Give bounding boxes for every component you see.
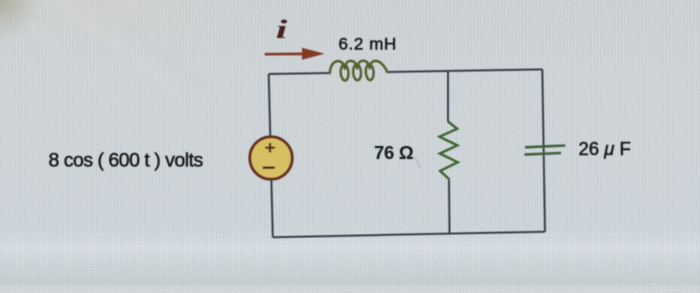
wire middle branch upper xyxy=(447,71,449,121)
voltage source VS circle xyxy=(250,137,292,179)
svg-text:26 μ F: 26 μ F xyxy=(579,138,631,159)
wire left edge xyxy=(269,74,273,237)
capacitor C1 plate top xyxy=(525,146,565,148)
wire top edge left segment xyxy=(269,73,330,74)
wire bottom edge xyxy=(273,232,545,238)
inductor L1 6.2 mH coil xyxy=(330,61,388,81)
current arrow shaft xyxy=(265,53,304,56)
capacitor C1 plate bottom xyxy=(524,153,561,155)
svg-text:i: i xyxy=(276,15,288,44)
voltage source plus sign xyxy=(265,143,275,153)
wire middle branch lower xyxy=(448,180,451,234)
voltage source minus sign xyxy=(263,166,275,169)
svg-text:6.2 mH: 6.2 mH xyxy=(339,35,397,54)
label i current xyxy=(276,15,288,44)
resistor R1 76 ohm zigzag xyxy=(440,122,458,180)
scratch artifact xyxy=(416,158,421,169)
wire top edge right segment xyxy=(388,69,543,72)
current arrow head xyxy=(302,48,325,60)
reflection streaks top-left xyxy=(28,0,235,105)
svg-text:8 cos ( 600 t ) volts: 8 cos ( 600 t ) volts xyxy=(49,150,204,172)
wire right edge xyxy=(542,69,545,231)
svg-text:76 Ω: 76 Ω xyxy=(374,142,414,163)
